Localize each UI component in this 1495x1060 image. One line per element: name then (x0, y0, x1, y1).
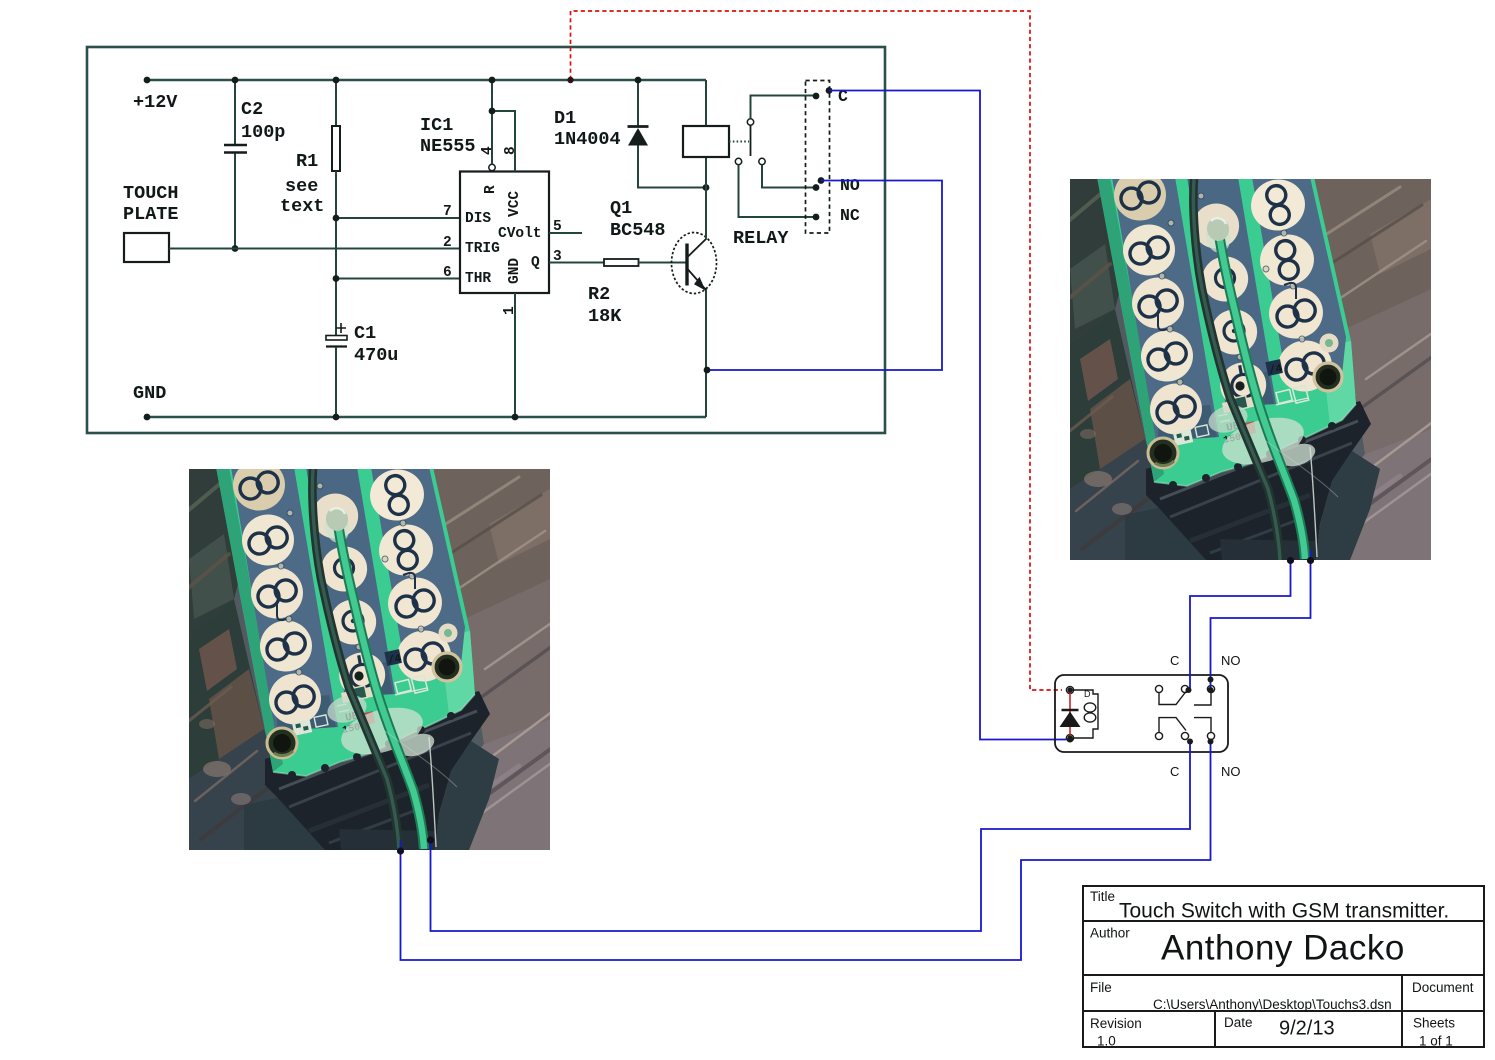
svg-text:C: C (1170, 653, 1179, 668)
node module C bottom dot (1187, 739, 1193, 745)
svg-text:NC: NC (840, 206, 860, 225)
relay module contacts top row (1155, 685, 1214, 705)
svg-text:File: File (1090, 980, 1112, 995)
pin 1 GND wire (514, 293, 516, 417)
relay NC contact (735, 158, 819, 220)
svg-text:see: see (285, 176, 318, 197)
node GND left end (144, 414, 151, 421)
node red junction on +12V rail (567, 77, 573, 83)
svg-text:Title: Title (1090, 889, 1115, 904)
svg-text:NO: NO (1221, 653, 1241, 668)
svg-text:3: 3 (553, 249, 562, 265)
svg-text:R: R (483, 185, 499, 194)
relay pole contact (747, 93, 819, 156)
svg-text:NO: NO (1221, 764, 1241, 779)
svg-text:PLATE: PLATE (123, 204, 179, 225)
wire collector to relay coil (705, 157, 707, 239)
node photo1 green wire dot (427, 836, 434, 843)
pin 4 reset circle and wire (489, 164, 495, 170)
svg-text:9/2/13: 9/2/13 (1279, 1018, 1335, 1040)
wire DIS net (336, 217, 460, 219)
resistor R2 18K (588, 259, 686, 327)
relay NO contact (759, 158, 820, 191)
svg-text:NE555: NE555 (420, 136, 476, 157)
svg-text:C2: C2 (241, 99, 263, 120)
svg-text:8: 8 (503, 146, 519, 155)
svg-text:TRIG: TRIG (465, 241, 500, 257)
wire blue C to relay module coil (829, 91, 1066, 740)
pin 3 label + Q wire (549, 262, 604, 264)
svg-text:IC1: IC1 (420, 115, 453, 136)
svg-text:Document: Document (1412, 980, 1474, 995)
capacitor C1 (electrolytic) (326, 323, 398, 420)
svg-text:text: text (280, 196, 324, 217)
relay module flyback diode (red wire) (1060, 687, 1081, 740)
node module coil bottom blue dot (1067, 737, 1073, 743)
wire blue module NO bottom to photo1 dark wire (401, 742, 1211, 960)
svg-text:R2: R2 (588, 284, 610, 305)
wire TRIG net (169, 248, 460, 250)
svg-text:18K: 18K (588, 306, 622, 327)
node photo1 dark wire dot (397, 847, 404, 854)
node photo2 C dot (1287, 557, 1294, 564)
svg-text:1N4004: 1N4004 (554, 129, 621, 150)
svg-text:+12V: +12V (133, 92, 178, 113)
svg-text:Date: Date (1224, 1015, 1253, 1030)
svg-text:Q: Q (531, 255, 540, 271)
node +12V left end (144, 77, 151, 84)
relay coil box (683, 80, 789, 249)
node module C top dot (1186, 687, 1192, 693)
wire GND rail (147, 416, 706, 419)
photo2 PCB top-right (1062, 165, 1462, 577)
svg-text:Anthony Dacko: Anthony Dacko (1161, 929, 1405, 968)
title block frame (1083, 886, 1484, 1047)
node module NO top dots (1208, 677, 1214, 683)
node blue NO at emitter (704, 367, 711, 374)
svg-text:C:\Users\Anthony\Desktop\Touch: C:\Users\Anthony\Desktop\Touchs3.dsn (1153, 997, 1392, 1012)
transistor Q1 BC548 (610, 198, 717, 294)
resistor R1 (280, 77, 340, 335)
svg-text:100p: 100p (241, 122, 285, 143)
relay module outline (1055, 675, 1228, 752)
svg-text:D: D (1084, 689, 1091, 699)
node module NO bottom dot (1208, 739, 1214, 745)
schematic frame border (87, 47, 885, 433)
svg-text:C: C (1170, 764, 1179, 779)
svg-text:1 of 1: 1 of 1 (1419, 1034, 1453, 1049)
wire blue NO to emitter net (708, 181, 942, 371)
svg-text:GND: GND (507, 258, 523, 284)
wire emitter to GND rail (705, 291, 707, 418)
diode D1 1N4004 (554, 77, 709, 191)
svg-text:NO: NO (840, 176, 860, 195)
svg-text:GND: GND (133, 383, 166, 404)
svg-text:CVolt: CVolt (498, 226, 542, 242)
svg-text:1.0: 1.0 (1097, 1034, 1116, 1049)
node THR-R1 junction (333, 275, 340, 282)
wire blue photo2 C to module C top (1190, 561, 1291, 689)
svg-text:Q1: Q1 (610, 198, 632, 219)
touch plate (123, 183, 179, 262)
relay module coil symbol (1070, 689, 1098, 738)
svg-text:5: 5 (553, 219, 562, 235)
svg-text:BC548: BC548 (610, 220, 666, 241)
photo1 PCB bottom-left (181, 455, 581, 867)
wire blue module C bottom to photo1 green wire (431, 742, 1191, 931)
svg-text:DIS: DIS (465, 211, 491, 227)
svg-text:4: 4 (480, 146, 496, 155)
node NO net start (818, 177, 825, 184)
svg-text:Author: Author (1090, 926, 1130, 941)
svg-text:6: 6 (443, 265, 452, 281)
svg-text:Sheets: Sheets (1413, 1016, 1455, 1031)
relay module contacts bottom row (1155, 718, 1214, 740)
node photo2 NO dot (1307, 557, 1314, 564)
node C net start (826, 87, 833, 94)
node DIS-R1 junction (333, 215, 340, 222)
svg-text:D1: D1 (554, 108, 576, 129)
svg-text:C1: C1 (354, 323, 376, 344)
wire blue photo2 NO to module NO top (1211, 550, 1311, 688)
svg-text:1: 1 (502, 306, 518, 315)
wire THR net (336, 278, 460, 280)
capacitor C2 (224, 77, 285, 252)
IC IC1 NE555 body (420, 115, 549, 293)
svg-text:TOUCH: TOUCH (123, 183, 179, 204)
wire +12V top rail (147, 79, 706, 82)
pin 8 VCC wire (492, 111, 515, 172)
svg-text:Revision: Revision (1090, 1016, 1142, 1031)
svg-text:Touch Switch with GSM transmit: Touch Switch with GSM transmitter. (1119, 900, 1449, 923)
relay actuator dotted link (729, 141, 749, 143)
svg-text:VCC: VCC (507, 191, 523, 217)
relay module coil - terminal bottom (1066, 734, 1073, 741)
svg-text:R1: R1 (296, 151, 318, 172)
relay module coil + terminal top (1066, 686, 1073, 693)
svg-text:THR: THR (465, 271, 491, 287)
wire red dashed +12V to relay module (571, 11, 1063, 690)
svg-text:7: 7 (443, 204, 452, 220)
svg-text:470u: 470u (354, 345, 398, 366)
svg-text:RELAY: RELAY (733, 228, 789, 249)
relay terminal dashed box (806, 81, 830, 234)
svg-text:2: 2 (443, 235, 452, 251)
pin 5 label + CVolt stub (549, 232, 582, 234)
